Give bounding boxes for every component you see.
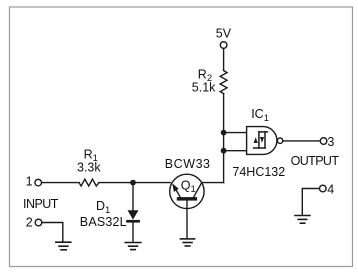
svg-text:5V: 5V xyxy=(216,27,232,41)
svg-text:3.3k: 3.3k xyxy=(77,161,101,175)
svg-text:3: 3 xyxy=(327,135,334,149)
svg-text:D1: D1 xyxy=(96,199,110,216)
svg-text:2: 2 xyxy=(26,216,33,230)
svg-text:INPUT: INPUT xyxy=(23,197,59,211)
svg-text:OUTPUT: OUTPUT xyxy=(291,154,340,168)
svg-text:BCW33: BCW33 xyxy=(165,157,210,171)
svg-text:4: 4 xyxy=(327,183,334,197)
svg-text:1: 1 xyxy=(26,174,33,188)
svg-text:IC1: IC1 xyxy=(251,107,269,124)
svg-text:74HC132: 74HC132 xyxy=(232,165,285,179)
svg-text:BAS32L: BAS32L xyxy=(80,215,127,229)
svg-text:5.1k: 5.1k xyxy=(192,81,216,95)
